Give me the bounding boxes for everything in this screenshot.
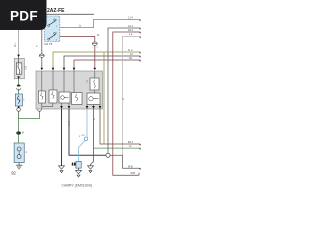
wire olive ECM pin2 to right edge — [53, 52, 140, 71]
olive branch vertical from mid line down to brown line — [103, 52, 105, 144]
node circle — [106, 153, 110, 157]
connector CN-b oval — [16, 131, 21, 134]
page background — [0, 0, 149, 198]
pin arrow C2 into ECM — [38, 105, 41, 108]
ECM internal wire b1-b2 merge — [42, 103, 53, 109]
wire maroon top-right corner down to bottom — [113, 32, 141, 175]
ECM internal box b4 — [72, 93, 83, 105]
pin arrow ECM bottom pinB — [68, 106, 71, 109]
ECM internal stub b5-b6 — [94, 90, 96, 93]
pin arrow ECM pin4 — [73, 68, 76, 71]
svg-text:1E 4: 1E 4 — [128, 29, 134, 32]
olive line arrow end — [139, 52, 141, 54]
ECM internal box b5 (fuse) — [90, 78, 99, 90]
W2 connector oval — [92, 42, 97, 45]
wire green U C1 to C2 — [19, 111, 40, 118]
pin arrow ECM pin5 — [94, 68, 97, 71]
svg-text:11 4: 11 4 — [128, 49, 133, 52]
chassis ground under SB2 — [18, 163, 20, 166]
wire W2 maroon relay to ECM pin5 — [60, 36, 95, 67]
ECM internal box b3 — [59, 92, 70, 103]
green branch from pinD wire to right edge — [94, 147, 141, 149]
wire brown pinE down right — [100, 109, 140, 144]
pin arrow ECM bottom pinD — [92, 106, 95, 109]
shield circle on blue wire — [84, 137, 88, 141]
pin arrow ECM bottom pinE — [99, 106, 102, 109]
wire gray pinD down to ground G3 — [91, 109, 94, 166]
connector circle C2 — [38, 108, 42, 112]
wire green connector to switch box — [18, 89, 20, 94]
svg-text:EFI: EFI — [24, 66, 27, 70]
wire blue slant to SB3 — [78, 140, 85, 161]
brown end arrow — [139, 144, 141, 146]
svg-text:W-L: W-L — [14, 42, 17, 47]
svg-text:E/R J/B: E/R J/B — [45, 44, 53, 46]
ground G3 — [88, 166, 94, 169]
shield hook glyph — [82, 134, 85, 137]
maroon line arrow end — [139, 60, 141, 62]
svg-text:IH: IH — [22, 132, 25, 135]
title underline — [0, 13, 94, 15]
ECM internal stub pin1 — [41, 71, 43, 91]
svg-text:CAMRY (EM01S0U): CAMRY (EM01S0U) — [62, 183, 93, 187]
wire green C1 down to connector CN-b — [18, 111, 20, 131]
ECM box — [36, 71, 103, 109]
wire W-B pinA to ground G1 — [61, 109, 63, 166]
switch box SB1 (light blue) — [15, 94, 22, 106]
wire green CN-b to noise filter — [18, 135, 20, 144]
svg-text:1J 4: 1J 4 — [128, 16, 133, 19]
ECM internal stub pin3 — [63, 71, 65, 92]
ECM internal stub pin4 — [73, 71, 75, 93]
svg-text:2AZ-FE: 2AZ-FE — [47, 8, 65, 14]
PDF badge — [0, 0, 47, 30]
maroon bottom end tick — [138, 173, 140, 176]
wire green fuse to connector — [18, 79, 20, 87]
wire gray node to right then down — [110, 155, 140, 168]
wire W3 maroon badge to ECM pin1 — [41, 29, 43, 68]
svg-text:W-B: W-B — [68, 121, 71, 126]
wire maroon ECM pin4 to right edge — [74, 60, 140, 71]
pin arrow ECM bottom pinA — [60, 106, 63, 109]
junction block (fuse) gray box — [14, 58, 24, 79]
connector CN-a — [17, 85, 21, 87]
ECM internal box b6 (coil) — [87, 93, 100, 105]
ECM internal box b1 — [38, 91, 45, 103]
ground G1 — [59, 166, 65, 169]
pin arrow ECM bottom pinC — [86, 106, 89, 109]
ECM internal stub pin5 — [94, 71, 96, 78]
gray end arrow — [139, 169, 141, 171]
svg-text:1A 4: 1A 4 — [128, 25, 133, 28]
W3 connector oval — [39, 54, 44, 57]
wire gray top-right corner down to node circle — [108, 28, 140, 153]
pin arrow into fuse box — [17, 55, 20, 58]
wire W1 olive relay to right edge — [60, 20, 141, 28]
wire light gray top-right corner down — [123, 37, 141, 156]
W1 arrow end — [139, 20, 141, 22]
svg-text:B4 4: B4 4 — [128, 141, 134, 144]
connector ticks left of SB3 — [72, 163, 74, 166]
gray line arrow end — [139, 56, 141, 58]
green end arrow — [139, 148, 141, 150]
svg-text:PDF: PDF — [10, 9, 38, 24]
ground G2 under SB3 — [76, 170, 82, 173]
pin arrow ECM pin2 — [52, 68, 55, 71]
svg-text:92: 92 — [11, 170, 16, 175]
fuse EFI symbol — [16, 63, 22, 74]
relay switch SW2 — [48, 38, 50, 40]
ECM internal box b2 — [49, 90, 57, 103]
relay box RB (light blue dashed) — [45, 16, 60, 42]
sensor box SB3 (light blue) — [76, 161, 81, 168]
relay switch SW1 — [48, 25, 50, 27]
svg-text:1E: 1E — [129, 57, 132, 60]
pin arrow out of fuse box — [17, 76, 20, 79]
wire gray ECM pin3 to right edge — [64, 56, 140, 71]
svg-text:W-B: W-B — [131, 172, 136, 175]
svg-text:W-B: W-B — [128, 165, 133, 168]
wire light blue pinC down — [86, 109, 88, 137]
noise filter box SB2 (light blue) — [14, 143, 24, 163]
pin arrow ECM pin1 — [41, 68, 44, 71]
wire W-B pinB down right to node — [69, 109, 106, 155]
wire W-L from badge to EFI fuse — [18, 29, 20, 57]
connector circle C1 — [17, 108, 21, 112]
pin arrow ECM pin3 — [63, 68, 66, 71]
ECM internal bottom stubs — [61, 103, 63, 109]
ECM internal stub pin2 — [52, 71, 54, 90]
